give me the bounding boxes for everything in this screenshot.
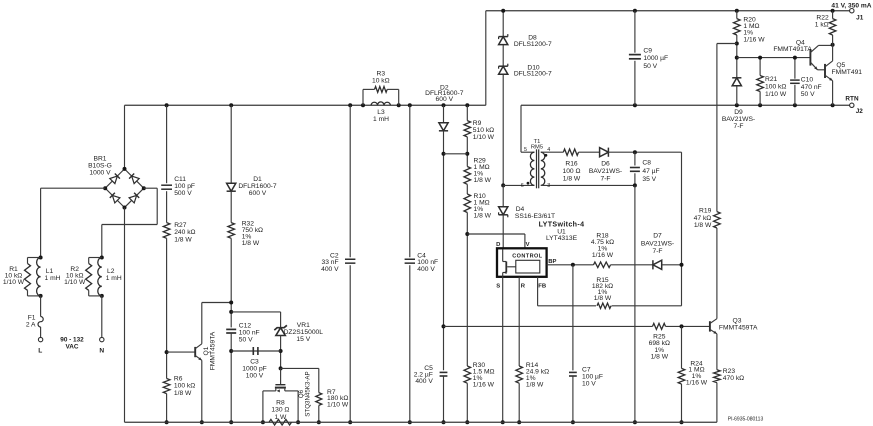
svg-text:100 Ω: 100 Ω <box>562 168 580 175</box>
svg-text:1/8 W: 1/8 W <box>242 240 260 247</box>
svg-text:DZ2S15000L: DZ2S15000L <box>284 329 324 336</box>
svg-text:R21: R21 <box>765 76 778 83</box>
svg-text:90 - 132: 90 - 132 <box>60 336 84 343</box>
svg-text:130 Ω: 130 Ω <box>271 407 289 414</box>
svg-text:3: 3 <box>547 183 550 189</box>
svg-text:35 V: 35 V <box>642 176 656 183</box>
svg-text:1000 µF: 1000 µF <box>643 55 668 62</box>
svg-text:D6: D6 <box>601 161 610 168</box>
svg-text:CONTROL: CONTROL <box>512 254 543 260</box>
svg-text:1/10 W: 1/10 W <box>765 91 787 98</box>
svg-text:FMMT459TA: FMMT459TA <box>210 331 217 370</box>
svg-text:R3: R3 <box>377 71 386 78</box>
svg-text:R16: R16 <box>565 161 578 168</box>
svg-text:240 kΩ: 240 kΩ <box>174 229 195 236</box>
svg-text:4: 4 <box>547 147 550 153</box>
svg-text:SS16-E3/61T: SS16-E3/61T <box>515 213 555 220</box>
svg-text:1/8 W: 1/8 W <box>651 354 669 361</box>
svg-text:J1: J1 <box>856 15 864 22</box>
svg-text:400 V: 400 V <box>321 266 339 273</box>
svg-text:LYTSwitch-4: LYTSwitch-4 <box>539 221 585 229</box>
svg-text:C3: C3 <box>250 358 259 365</box>
svg-text:D: D <box>496 242 500 248</box>
svg-text:RTN: RTN <box>845 95 859 102</box>
svg-text:RM5: RM5 <box>531 144 543 150</box>
svg-text:1/10 W: 1/10 W <box>327 402 349 409</box>
svg-text:400 V: 400 V <box>415 378 433 385</box>
svg-text:DFLR1600-7: DFLR1600-7 <box>238 183 277 190</box>
svg-text:7-F: 7-F <box>600 175 610 182</box>
svg-text:400 V: 400 V <box>417 266 435 273</box>
svg-text:1000 V: 1000 V <box>89 169 111 176</box>
svg-text:BR1: BR1 <box>93 155 106 162</box>
svg-text:L2: L2 <box>107 268 115 275</box>
svg-text:50 V: 50 V <box>643 63 657 70</box>
svg-text:C11: C11 <box>174 176 186 183</box>
svg-text:10 kΩ: 10 kΩ <box>372 78 390 85</box>
svg-text:LYT4313E: LYT4313E <box>546 235 578 242</box>
svg-text:R22: R22 <box>816 15 829 22</box>
svg-text:1/8 W: 1/8 W <box>594 295 612 302</box>
svg-text:STQ3N45K3-AP: STQ3N45K3-AP <box>305 371 312 416</box>
svg-text:L3: L3 <box>377 109 385 116</box>
svg-text:R6: R6 <box>174 376 183 383</box>
svg-text:BP: BP <box>548 259 556 265</box>
svg-text:1/10 W: 1/10 W <box>3 279 25 286</box>
svg-text:R27: R27 <box>174 222 187 229</box>
svg-text:600 V: 600 V <box>436 96 454 103</box>
svg-text:FB: FB <box>538 284 546 290</box>
svg-text:470 kΩ: 470 kΩ <box>723 375 744 382</box>
svg-text:PI-6935-080113: PI-6935-080113 <box>728 417 764 423</box>
svg-text:50 V: 50 V <box>239 336 253 343</box>
svg-text:S: S <box>496 284 500 290</box>
svg-text:2 A: 2 A <box>26 321 36 328</box>
svg-text:1 mH: 1 mH <box>373 116 389 123</box>
svg-text:1/8 W: 1/8 W <box>474 177 492 184</box>
svg-text:R8: R8 <box>276 400 285 407</box>
svg-text:DFLS1200-7: DFLS1200-7 <box>514 41 552 48</box>
svg-text:FMMT491TA: FMMT491TA <box>773 46 812 53</box>
svg-text:DFLS1200-7: DFLS1200-7 <box>514 71 552 78</box>
svg-text:BAV21WS-: BAV21WS- <box>641 240 674 247</box>
svg-text:100 pF: 100 pF <box>174 183 195 190</box>
svg-text:VAC: VAC <box>65 344 78 351</box>
svg-text:1/8 W: 1/8 W <box>174 390 192 397</box>
svg-text:J2: J2 <box>856 108 864 115</box>
svg-text:V: V <box>526 242 530 248</box>
svg-text:1/8 W: 1/8 W <box>694 222 712 229</box>
svg-text:L1: L1 <box>46 268 54 275</box>
svg-text:1/10 W: 1/10 W <box>64 279 86 286</box>
svg-text:47 µF: 47 µF <box>642 168 659 175</box>
svg-text:VR1: VR1 <box>297 322 310 329</box>
svg-text:470 nF: 470 nF <box>801 84 822 91</box>
svg-text:50 V: 50 V <box>801 91 815 98</box>
svg-text:D1: D1 <box>253 176 262 183</box>
svg-text:1/10 W: 1/10 W <box>473 134 495 141</box>
svg-text:1 mH: 1 mH <box>106 275 122 282</box>
svg-text:47 kΩ: 47 kΩ <box>694 215 712 222</box>
svg-text:500 V: 500 V <box>174 190 192 197</box>
svg-text:5: 5 <box>524 147 527 153</box>
svg-text:C10: C10 <box>801 76 814 83</box>
svg-text:1/8 W: 1/8 W <box>526 382 544 389</box>
svg-text:600 V: 600 V <box>249 190 267 197</box>
svg-text:R9: R9 <box>473 120 482 127</box>
svg-text:1000 pF: 1000 pF <box>242 366 267 373</box>
svg-text:100 kΩ: 100 kΩ <box>174 383 195 390</box>
svg-text:510 kΩ: 510 kΩ <box>473 127 494 134</box>
svg-text:C9: C9 <box>643 48 652 55</box>
svg-text:7-F: 7-F <box>733 123 743 130</box>
svg-text:1 kΩ: 1 kΩ <box>815 22 829 29</box>
svg-text:1 mH: 1 mH <box>45 275 61 282</box>
svg-text:6: 6 <box>521 183 524 189</box>
svg-text:41 V, 350 mA: 41 V, 350 mA <box>831 3 871 10</box>
svg-text:C12: C12 <box>239 322 252 329</box>
svg-text:C8: C8 <box>642 160 651 167</box>
svg-text:D7: D7 <box>653 233 662 240</box>
svg-text:1/16 W: 1/16 W <box>592 252 614 259</box>
svg-text:1/8 W: 1/8 W <box>474 213 492 220</box>
svg-text:100 V: 100 V <box>246 373 264 380</box>
svg-text:1/16 W: 1/16 W <box>686 380 708 387</box>
svg-text:F1: F1 <box>28 314 36 321</box>
svg-text:R: R <box>521 284 526 290</box>
svg-text:100 kΩ: 100 kΩ <box>765 84 786 91</box>
svg-text:FMMT459TA: FMMT459TA <box>719 325 758 332</box>
svg-text:1/8 W: 1/8 W <box>174 236 192 243</box>
svg-text:1/16 W: 1/16 W <box>743 36 765 43</box>
svg-text:BAV21WS-: BAV21WS- <box>589 168 622 175</box>
svg-text:B10S-G: B10S-G <box>88 162 112 169</box>
svg-text:1/16 W: 1/16 W <box>473 382 495 389</box>
svg-text:15 V: 15 V <box>296 336 310 343</box>
svg-text:1/8 W: 1/8 W <box>563 175 581 182</box>
svg-text:N: N <box>99 347 104 354</box>
svg-text:10 V: 10 V <box>582 380 596 387</box>
svg-text:FMMT491: FMMT491 <box>832 69 863 76</box>
svg-text:7-F: 7-F <box>652 248 662 255</box>
svg-text:100 nF: 100 nF <box>239 329 260 336</box>
svg-text:R19: R19 <box>699 208 712 215</box>
svg-text:L: L <box>38 347 42 354</box>
